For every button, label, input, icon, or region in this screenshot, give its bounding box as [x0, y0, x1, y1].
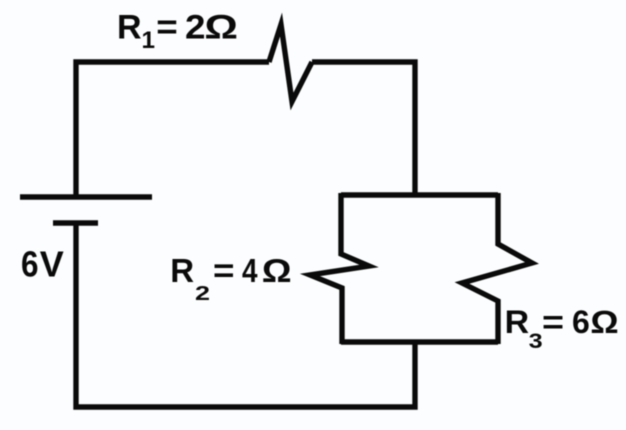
resistor R2 (left parallel branch, zigzag break)	[310, 193, 369, 344]
wire: parallel-section top rail	[341, 192, 498, 197]
resistor R3 (right parallel branch, zigzag break)	[462, 193, 532, 344]
svg-text:R1=2Ω: R1=2Ω	[117, 9, 238, 54]
resistor R1 (zigzag break)	[269, 25, 312, 102]
wire: parallel-section bottom rail	[341, 339, 498, 344]
wire top-left: battery positive up and across to R1	[76, 62, 269, 197]
wire: bottom return to battery negative	[76, 223, 415, 407]
battery V1 short plate (-)	[53, 220, 98, 225]
svg-text:R3=6Ω: R3=6Ω	[505, 304, 619, 353]
svg-text:6V: 6V	[21, 244, 64, 285]
svg-text:R2=4Ω: R2=4Ω	[170, 252, 291, 305]
battery V1 long plate (+)	[20, 194, 152, 199]
wire top-right: R1 to right corner down to parallel top rail	[312, 62, 415, 195]
